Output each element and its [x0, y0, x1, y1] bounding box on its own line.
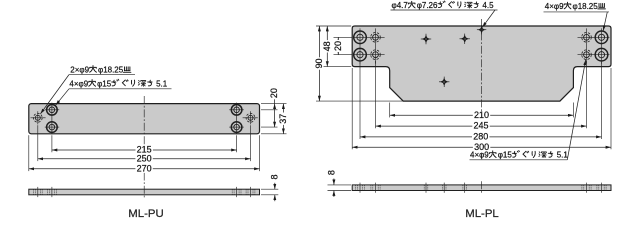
- side view hidden hole edges ML-PU: [32, 189, 34, 195]
- svg-text:37: 37: [278, 114, 288, 124]
- hole counterbore ML-PL left upper (4xphi9 phi15): [371, 33, 381, 43]
- extension lines right dims ML-PU: [261, 103, 287, 105]
- dimension 8 (thickness): [274, 183, 276, 189]
- hole cross lines ML-PU right end: [243, 117, 258, 119]
- dimension 300: [352, 146, 611, 148]
- centerline ML-PL vertical: [481, 19, 483, 111]
- svg-text:ML-PL: ML-PL: [465, 208, 499, 220]
- dimension 48 (end height): [326, 26, 328, 67]
- svg-text:250: 250: [137, 153, 152, 163]
- small hole center mark lower (phi4.7): [439, 81, 449, 83]
- svg-text:4×φ9: 4×φ9: [69, 79, 88, 88]
- extension lines thickness dim ML-PL: [328, 184, 352, 186]
- dimension 8 (thickness ML-PL): [333, 179, 335, 185]
- hole counterbore right upper: [231, 105, 242, 116]
- svg-text:5.1: 5.1: [557, 151, 569, 160]
- centerline ML-PU vertical: [143, 96, 145, 147]
- hole countersunk ML-PL right lower: [595, 48, 608, 61]
- dimension 37 (plate height): [282, 104, 284, 134]
- centerline ML-PU lower segment: [143, 173, 145, 185]
- hole countersunk left (2xphi9 phi18.25): [33, 113, 42, 122]
- svg-text:8: 8: [326, 170, 336, 175]
- hole counterbore right lower: [231, 122, 242, 133]
- side view hidden hole edges ML-PL: [354, 185, 356, 191]
- svg-text:φ15: φ15: [97, 79, 112, 88]
- callout underline and leader to counterbore hole: [470, 159, 568, 161]
- callout underline and leader to top center hole: [391, 9, 498, 11]
- hole countersunk ML-PL left lower: [354, 48, 367, 61]
- hole countersunk ML-PL left upper (4xphi9 phi18.25): [354, 31, 367, 44]
- side view centerline ML-PU: [143, 186, 145, 198]
- hole counterbore left lower: [47, 122, 58, 133]
- hole counterbore ML-PL right upper: [582, 33, 592, 43]
- svg-text:210: 210: [474, 110, 489, 120]
- svg-text:φ18.25: φ18.25: [98, 65, 124, 74]
- extension lines left dims ML-PL: [316, 25, 351, 27]
- hole countersunk ML-PL right upper: [595, 31, 608, 44]
- svg-text:8: 8: [269, 174, 279, 179]
- svg-text:φ15: φ15: [498, 151, 513, 160]
- svg-text:2×φ9: 2×φ9: [70, 65, 89, 74]
- side view centerline ML-PL: [481, 181, 483, 194]
- svg-text:280: 280: [473, 132, 488, 142]
- dimension 20 (hole rows): [337, 37, 339, 54]
- svg-text:20: 20: [333, 41, 343, 51]
- svg-text:ML-PU: ML-PU: [128, 208, 163, 220]
- plate ML-PL top view outline: [352, 26, 611, 101]
- side view hole centerlines ML-PU: [37, 187, 39, 197]
- extension lines bottom dims ML-PL: [389, 103, 391, 118]
- hole counterbore left upper (4xphi9 phi15): [47, 105, 58, 116]
- dimension 270: [29, 168, 260, 170]
- small hole center mark middle (phi4.7): [460, 38, 470, 40]
- centerline ML-PL lower segment: [481, 153, 483, 159]
- svg-text:5.1: 5.1: [156, 79, 168, 88]
- callout underline and leader to countersunk hole: [69, 74, 135, 76]
- dimension 90 (total height): [318, 26, 320, 101]
- callout underline and leader to counterbore hole: [69, 88, 172, 90]
- svg-text:270: 270: [137, 163, 152, 173]
- svg-text:φ4.7: φ4.7: [392, 1, 409, 10]
- plate ML-PU top view outline: [29, 104, 260, 134]
- dimension 245: [376, 125, 587, 127]
- dimension 280: [360, 136, 602, 138]
- hole cross lines ML-PL left end: [354, 36, 385, 38]
- svg-text:φ18.25: φ18.25: [573, 2, 599, 11]
- dimension 20 (hole row offset): [274, 104, 276, 128]
- small hole center mark left (phi4.7): [421, 38, 431, 40]
- side view hole centerlines ML-PL: [359, 183, 361, 193]
- hole counterbore ML-PL left lower: [371, 50, 381, 60]
- dimension 215: [52, 149, 237, 151]
- svg-text:90: 90: [314, 58, 324, 68]
- side view bar ML-PU: [29, 189, 260, 195]
- side view bar ML-PL: [352, 185, 611, 191]
- svg-text:4×φ9: 4×φ9: [545, 2, 564, 11]
- hole cross lines ML-PL right end: [578, 36, 610, 38]
- dimension 210: [390, 114, 574, 116]
- dimension 250: [38, 158, 251, 160]
- svg-text:4×φ9: 4×φ9: [470, 151, 489, 160]
- svg-text:4.5: 4.5: [482, 1, 494, 10]
- svg-text:φ7.26: φ7.26: [417, 1, 438, 10]
- hole countersunk right: [246, 113, 255, 122]
- small hole center mark top center (phi4.7): [477, 29, 486, 31]
- callout underline and leader to countersunk hole: [544, 11, 610, 13]
- extension lines bottom dims ML-PU: [51, 135, 53, 152]
- hole cross lines ML-PU left end: [31, 117, 46, 119]
- extension lines thickness dim ML-PU: [261, 188, 278, 190]
- svg-text:245: 245: [473, 121, 488, 131]
- hole counterbore ML-PL right lower: [582, 50, 592, 60]
- svg-text:48: 48: [322, 41, 332, 51]
- svg-text:20: 20: [269, 88, 279, 98]
